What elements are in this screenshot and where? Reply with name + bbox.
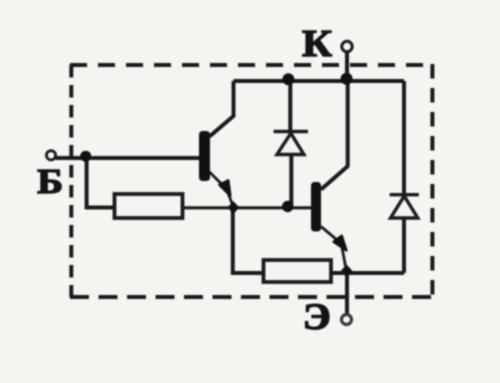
- svg-text:К: К: [302, 23, 332, 65]
- svg-text:Б: Б: [37, 162, 63, 201]
- svg-text:Э: Э: [303, 297, 331, 338]
